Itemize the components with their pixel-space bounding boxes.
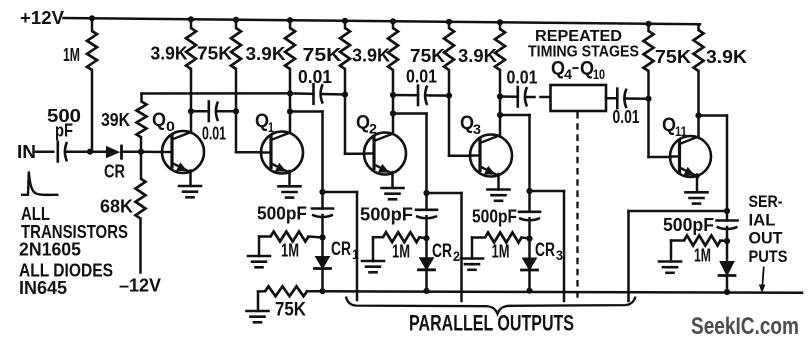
svg-text:500pF: 500pF (257, 204, 307, 224)
svg-text:2: 2 (369, 121, 377, 137)
svg-text:Q: Q (356, 113, 370, 134)
node serial chain tap (724, 208, 730, 214)
ground Q0 (179, 185, 201, 188)
wire stage1 collector to chain (290, 110, 323, 113)
wire stage3 chain down (528, 191, 531, 212)
wire diode to node (122, 151, 142, 154)
wire cap to node (67, 150, 91, 153)
node stage2 1M-CR junction (423, 235, 429, 241)
wire +12V rail (64, 18, 701, 24)
node Q2 collector - chain (390, 110, 396, 116)
svg-text:3.9K: 3.9K (151, 44, 188, 64)
node Q1 base node (233, 108, 239, 114)
node stage1 1M-CR junction (319, 234, 325, 240)
resistor 3.9K stage1 (285, 28, 295, 69)
svg-text:Q: Q (255, 111, 269, 132)
svg-text:Q: Q (152, 110, 166, 131)
node rail-R6 (390, 18, 396, 24)
resistor 75K bottom (265, 286, 307, 296)
node stage2 chain tap (423, 190, 429, 196)
ground stage3 1M (461, 257, 483, 260)
wire Q11 collector (697, 71, 700, 138)
wire 39K to Q1 collector (cross-coupling) (142, 92, 291, 95)
svg-text:75K: 75K (275, 300, 306, 321)
resistor 68K (136, 179, 146, 219)
resistor 75K out (base Q11) (644, 31, 654, 71)
node Q2 base node (342, 91, 348, 97)
wire dashed cap to box (527, 96, 535, 99)
svg-text:Q: Q (460, 113, 474, 134)
wire Q3 collector (499, 70, 502, 136)
svg-text:2: 2 (453, 248, 460, 264)
svg-text:–: – (572, 57, 579, 77)
node stage1 chain tap (319, 189, 325, 195)
ground stage1 1M (248, 255, 270, 258)
capacitor 0.01 stage2-3 (417, 86, 420, 106)
svg-text:68K: 68K (100, 197, 133, 217)
wire Q11 base hook (647, 99, 650, 157)
wire Q1 base hook (235, 111, 238, 152)
node stage2 bus junction (423, 288, 429, 294)
wire stage2 chain down (425, 193, 428, 210)
diode serial output (720, 262, 734, 276)
svg-text:3.9K: 3.9K (706, 47, 747, 67)
svg-text:2N1605: 2N1605 (19, 240, 81, 260)
svg-text:pF: pF (55, 121, 73, 141)
resistor 3.9K stage3 (495, 29, 505, 70)
svg-text:10: 10 (593, 66, 605, 82)
wire Q11 emitter (696, 175, 699, 193)
svg-text:OUT: OUT (749, 229, 784, 248)
transistor Q2 (364, 133, 406, 175)
wire stage3 parallel drop (530, 190, 565, 193)
wire dashed box down (576, 112, 578, 300)
capacitor 0.01 box-Q11 (616, 89, 619, 109)
svg-text:PARALLEL OUTPUTS: PARALLEL OUTPUTS (409, 311, 574, 336)
node Q3 collector - cap (497, 93, 503, 99)
wire stage3 collector to chain (500, 114, 530, 117)
svg-text:Q: Q (580, 59, 594, 80)
svg-text:3.9K: 3.9K (458, 46, 497, 66)
svg-text:75K: 75K (197, 44, 232, 64)
wire stage2 cap to node (425, 216, 428, 238)
wire 75K-4 down (647, 71, 650, 99)
wire Q1 collector (289, 69, 292, 133)
svg-text:0.01: 0.01 (507, 68, 538, 88)
svg-text:SeekIC.com: SeekIC.com (691, 313, 799, 340)
wire stage2 parallel drop (427, 192, 462, 195)
ground Q11 (686, 191, 708, 194)
wire ground to 75K (257, 292, 260, 312)
diode CR1 (316, 257, 330, 269)
wire Q3 emitter (497, 174, 500, 190)
capacitor 500pF stage3 (519, 211, 540, 214)
wire stage2 collector to chain (393, 112, 427, 115)
diode CR2 (420, 258, 434, 270)
svg-text:REPEATED: REPEATED (535, 28, 622, 45)
capacitor 0.01 stage1-2 (312, 84, 315, 104)
wire node to diode (90, 150, 106, 153)
svg-text:500pF: 500pF (472, 207, 517, 227)
capacitor 0.01 stage3-box (516, 87, 519, 107)
svg-text:75K: 75K (303, 45, 342, 65)
node Q1 collector - crosscouple (287, 90, 293, 96)
wire stage3 cap to node (528, 218, 531, 238)
ground Q1 (279, 185, 301, 188)
wire node to Q0 base (141, 151, 162, 154)
node Q1 collector - chain (287, 108, 293, 114)
capacitor 500pF serial (717, 219, 738, 222)
resistor 3.9K stage2 (388, 28, 398, 70)
node Q3 collector - chain (497, 112, 503, 118)
wire Q1 emitter (288, 171, 291, 186)
resistor 1M (input) (87, 31, 97, 70)
svg-text:0: 0 (166, 118, 175, 134)
node stage3 1M-CR junction (526, 235, 532, 241)
svg-text:500pF: 500pF (663, 215, 714, 235)
capacitor 500pF stage1 (312, 207, 333, 210)
svg-text:1M: 1M (63, 45, 80, 65)
node base Q0 / 39K / 68K (138, 149, 144, 155)
arrow serial outputs (762, 267, 763, 286)
svg-text:+12V: +12V (20, 8, 64, 28)
transistor Q3 (470, 135, 512, 177)
node rail-R9 (645, 21, 651, 27)
ground Q2 (382, 187, 404, 190)
svg-text:1M: 1M (281, 241, 299, 261)
resistor 3.9K out (694, 30, 704, 71)
svg-text:3.9K: 3.9K (352, 46, 390, 66)
resistor 75K stage0 (base Q1) (231, 28, 241, 69)
resistor 1M stage1 (271, 232, 309, 242)
capacitor 500pF stage2 (416, 209, 437, 212)
svg-text:0.01: 0.01 (406, 67, 437, 87)
wire Q3 base hook (448, 96, 451, 156)
wire stage1 chain down (321, 192, 324, 209)
node rail-R2 (188, 16, 194, 22)
node rail-R7 (446, 19, 452, 25)
svg-text:500pF: 500pF (360, 205, 413, 225)
svg-text:Q: Q (551, 59, 565, 80)
wire serial chain down (726, 211, 729, 221)
transistor Q1 (261, 132, 303, 174)
wire Q2 emitter (391, 172, 394, 188)
svg-text:PUTS: PUTS (749, 247, 788, 266)
resistor 75K stage1 (base Q2) (340, 28, 350, 69)
node stage3 bus junction (526, 288, 532, 294)
wire Q11 collector to chain (699, 114, 728, 117)
diode CR input (106, 146, 120, 158)
node serial 1M-CR junction (724, 238, 730, 244)
box repeated timing stages Q4-Q10 (551, 85, 607, 111)
node stage3 chain tap (526, 188, 532, 194)
svg-text:3: 3 (473, 121, 481, 137)
wire Q0 collector (190, 69, 193, 133)
svg-text:0.01: 0.01 (298, 67, 332, 87)
capacitor 500pF input (56, 142, 59, 162)
ground Q3 (488, 188, 510, 191)
svg-text:1: 1 (268, 119, 274, 135)
svg-text:4: 4 (564, 66, 572, 82)
wire serial drop (629, 210, 728, 213)
svg-text:CR: CR (104, 162, 125, 182)
wire stage1 cap to node (321, 215, 324, 238)
resistor 1M serial (684, 236, 721, 246)
svg-text:IN645: IN645 (19, 278, 67, 298)
node Q0 collector - cap (188, 108, 194, 114)
ground serial 1M (659, 260, 681, 263)
svg-text:Q: Q (662, 115, 676, 136)
svg-text:–12V: –12V (119, 276, 161, 296)
svg-text:IN: IN (17, 142, 36, 162)
node Q11 base node (645, 96, 651, 102)
resistor 1M stage3 (485, 233, 522, 243)
svg-text:0.01: 0.01 (202, 124, 226, 144)
wire Q0 emitter (189, 171, 192, 187)
input pulse waveform (21, 172, 59, 195)
svg-text:11: 11 (675, 123, 687, 139)
diode CR3 (523, 258, 537, 270)
svg-text:1M: 1M (492, 242, 510, 262)
node rail-R5 (342, 18, 348, 24)
svg-text:3.9K: 3.9K (246, 44, 286, 64)
svg-text:CR: CR (331, 239, 351, 260)
resistor 1M stage2 (383, 232, 420, 242)
svg-text:39K: 39K (101, 110, 130, 130)
svg-text:CR: CR (535, 240, 555, 261)
wire serial cap to node (726, 227, 729, 241)
node rail-R3 (233, 17, 239, 23)
svg-text:IAL: IAL (749, 210, 776, 229)
capacitor 0.01 stage0-1 (208, 102, 211, 122)
node Q11 collector (695, 112, 701, 118)
svg-text:0.01: 0.01 (613, 107, 640, 127)
svg-text:1M: 1M (392, 242, 410, 262)
svg-text:1M: 1M (694, 246, 711, 266)
node rail-1M (89, 15, 95, 21)
svg-text:SER-: SER- (749, 192, 783, 211)
wire output bus (307, 290, 323, 293)
ground bottom 75K (247, 310, 269, 313)
svg-text:75K: 75K (655, 47, 691, 67)
wire 75K down (235, 69, 238, 111)
svg-text:75K: 75K (410, 46, 445, 66)
svg-text:3: 3 (556, 247, 563, 263)
wire IN lead (36, 150, 53, 153)
wire Q2 collector (392, 70, 395, 134)
svg-text:ALL: ALL (21, 204, 50, 224)
node rail-R8 (497, 19, 503, 25)
wire 75K-2 down (344, 69, 347, 95)
node IN-1M junction (87, 149, 93, 155)
wire 75K-3 down (448, 70, 451, 96)
wire Q2 base hook (344, 95, 347, 154)
brace parallel outputs (346, 297, 636, 314)
transistor Q11 (670, 136, 711, 177)
wire stage1 parallel drop (323, 191, 358, 194)
transistor Q0 (162, 131, 204, 173)
svg-text:CR: CR (432, 241, 452, 262)
resistor 39K (137, 102, 147, 138)
node Q3 base node (446, 93, 452, 99)
node rail-R4 (287, 17, 293, 23)
resistor 3.9K stage0 (186, 28, 196, 69)
ground stage2 1M (362, 260, 384, 263)
node serial bus junction (724, 289, 730, 295)
resistor 75K stage2 (base Q3) (444, 28, 454, 70)
node Q2 collector - cap (390, 92, 396, 98)
node stage1 bus junction (319, 288, 325, 294)
